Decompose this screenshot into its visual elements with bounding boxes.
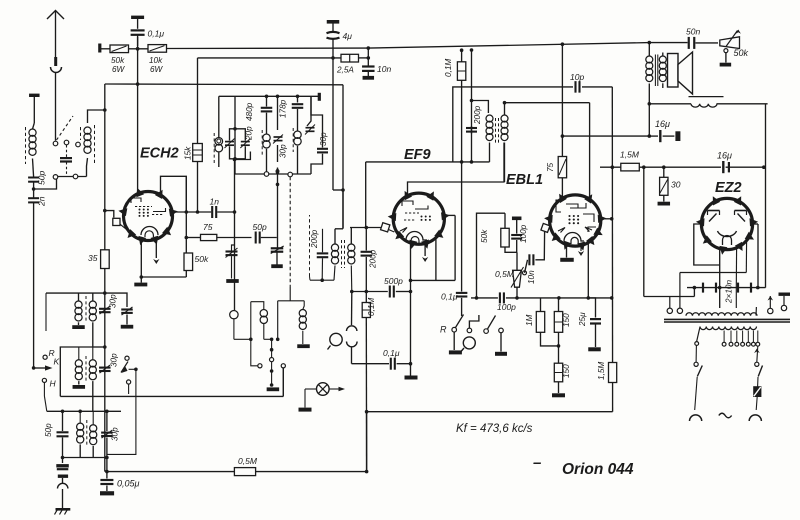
svg-text:1n: 1n [210, 197, 220, 207]
wire switch common y=176.5 [55, 175, 57, 180]
EF9 cathode bottom wires [410, 244, 412, 280]
resistor 1,5M (top) [600, 166, 621, 168]
transformer core [664, 318, 790, 320]
svg-text:200p: 200p [369, 249, 378, 269]
capacitor 50p (left) [28, 177, 39, 179]
svg-text:50p: 50p [44, 423, 53, 437]
svg-text:480p: 480p [245, 102, 254, 121]
wire x=643.8 down (HT) [643, 167, 645, 296]
cap 30p right leg [311, 96, 323, 147]
wire L2 top to grid line [88, 110, 105, 123]
svg-text:35: 35 [88, 253, 98, 263]
EBL1 right spike wire [601, 218, 612, 220]
svg-text:50k: 50k [195, 254, 209, 264]
electrolytic 4u to chassis [327, 20, 340, 24]
wire x=290 to mixer coil c [289, 177, 291, 287]
svg-text:150: 150 [562, 364, 571, 378]
tank2 coils [78, 347, 80, 360]
svg-text:15k: 15k [184, 146, 193, 160]
electrolytic 16u (first) [648, 134, 652, 138]
tank3 coils [79, 411, 81, 423]
AC symbol [719, 413, 732, 418]
svg-text:2×10n: 2×10n [725, 280, 734, 304]
resistor 35 on grid line [101, 250, 110, 269]
wire x=137.5 down to ECH2 [137, 37, 139, 193]
svg-text:Kf = 473,6 kc/s: Kf = 473,6 kc/s [456, 423, 533, 435]
wire IF1 secondary top / EF9 grid line [350, 227, 382, 229]
tube EBL1 [550, 195, 601, 246]
secondary winding [700, 327, 756, 330]
electrolytic 25u [588, 298, 595, 318]
svg-text:50p: 50p [253, 222, 267, 232]
antenna coil L1 [29, 129, 36, 136]
filter choke [649, 103, 691, 105]
svg-text:75: 75 [546, 162, 555, 172]
resistor 150 (upper) [558, 298, 560, 312]
capacitor 100p (AF coupling) [471, 297, 498, 299]
trimmer 30p tank3 [101, 432, 113, 434]
wire ECH2 top right loop [161, 176, 187, 212]
mixer coil c [278, 300, 305, 302]
switch contact right [281, 364, 285, 368]
EF9 anode top loop [408, 143, 505, 196]
wire dashed switch link [57, 116, 74, 140]
line y=411 left [47, 410, 121, 412]
resistor 30 to ground [663, 167, 665, 177]
band switch wiper line x=277.5 [276, 95, 280, 99]
wire down left column [33, 203, 35, 368]
wire 4u down to fuse rail [332, 39, 334, 58]
potentiometer 50k (tone) [720, 37, 740, 49]
capacitor 50p tank3 [62, 411, 64, 431]
trimmer2 tank1 [105, 293, 127, 307]
resistor 0,1M (AVC) [365, 292, 367, 303]
svg-text:150: 150 [562, 313, 571, 327]
capacitor 100p with top terminal [516, 217, 518, 221]
EBL1 grid square [541, 223, 550, 232]
wire x=612 vertical [611, 87, 613, 412]
capacitor 200p (IF1 left) [322, 229, 324, 253]
resistor 10k 6W [148, 45, 167, 53]
resistor 0,1M screen [460, 48, 464, 52]
pickup jack circle 2 [463, 337, 475, 349]
resistor 75 (EBL1) [558, 157, 566, 178]
terminal T-bar top-left [29, 94, 40, 97]
svg-text:200p: 200p [473, 105, 482, 125]
svg-text:1,5M: 1,5M [620, 150, 640, 160]
EBL1 bottom to 25u line [587, 240, 589, 298]
resistor 75 [186, 237, 200, 239]
potentiometer 0,5M (volume) [513, 270, 522, 287]
svg-text:EBL1: EBL1 [506, 172, 543, 188]
earth ground symbol [56, 508, 71, 511]
svg-text:30p: 30p [109, 294, 118, 308]
capacitor 10n (to EBL1 grid) [525, 260, 528, 273]
svg-text:25μ: 25μ [578, 312, 587, 327]
trimmer 30p tank1 [99, 308, 111, 310]
wire osc grid x=234.5 [234, 160, 236, 311]
mixer coil b [251, 302, 264, 310]
resistor 15k on x=197.5 [197, 58, 199, 144]
svg-text:10k: 10k [149, 56, 163, 65]
svg-text:–: – [533, 455, 541, 472]
svg-text:ECH2: ECH2 [140, 146, 179, 162]
tube EF9 [393, 193, 444, 244]
svg-text:200p: 200p [310, 229, 319, 249]
wire 75 feed [561, 44, 563, 156]
node [367, 56, 371, 60]
svg-text:10n: 10n [377, 64, 391, 74]
mains switch left [695, 342, 699, 346]
capacitors 2x10n [687, 287, 766, 289]
svg-text:100p: 100p [497, 302, 516, 312]
svg-text:10n: 10n [527, 270, 536, 284]
wire [129, 48, 149, 50]
svg-text:50k: 50k [111, 56, 125, 65]
chassis rail y=411.7 [366, 411, 613, 413]
capacitor 0,1u (EF9 cathode) [352, 363, 390, 365]
EBL1 cathode ground [566, 244, 568, 258]
secondary taps [723, 331, 725, 343]
capacitor 178p + coil [296, 95, 300, 99]
wire top rail left [101, 48, 110, 50]
variable cap (trimmer) B [235, 129, 245, 141]
svg-text:1,5M: 1,5M [597, 362, 606, 380]
svg-text:6W: 6W [150, 65, 164, 74]
grid line y=161.9 [366, 161, 490, 163]
wires caps row to rectifier line [693, 288, 695, 297]
wire x=471.5 [470, 48, 474, 52]
switch contacts tank2 [125, 356, 129, 360]
svg-text:50k: 50k [734, 48, 749, 58]
EZ2 internal diode plates [708, 210, 720, 212]
terminal bar mains dropper input [98, 44, 101, 53]
electrolytic 16u (second) [722, 161, 724, 173]
rail 2 y=57.8 [198, 57, 342, 59]
resistor 0,5M line [107, 471, 234, 473]
variable cap (tuning) A [230, 129, 236, 141]
capacitor 480p + coil [265, 95, 269, 99]
switch contacts (band switch top) [53, 141, 58, 146]
IF2 feed [472, 101, 489, 114]
svg-text:EF9: EF9 [404, 147, 431, 163]
svg-text:16μ: 16μ [655, 119, 670, 129]
svg-text:6W: 6W [112, 65, 126, 74]
resistor 150 (lower) [554, 363, 562, 382]
resistor 50k (EBL1) [504, 213, 506, 228]
ground EF9 cathode [410, 364, 412, 376]
ground ECH2 [140, 277, 142, 283]
svg-text:0,1M: 0,1M [444, 59, 453, 77]
svg-text:0,1M: 0,1M [367, 298, 376, 316]
trimmer cap (switch) [60, 157, 72, 159]
svg-text:4μ: 4μ [343, 31, 353, 41]
osc padder trimmer to ground [232, 245, 235, 251]
svg-text:1M: 1M [525, 314, 534, 326]
HV hook pins left [669, 297, 671, 309]
fuse 2,5A [341, 54, 359, 62]
mains plug pin right [749, 415, 761, 421]
svg-text:30p: 30p [111, 427, 120, 441]
wire corner down x=343 [342, 85, 344, 228]
wire to tank2 [60, 347, 105, 396]
ECH2 internal electrodes [131, 198, 141, 203]
wire fuse node up to rail [367, 48, 369, 58]
svg-text:0,5M: 0,5M [495, 269, 515, 279]
svg-text:75: 75 [203, 222, 213, 232]
svg-text:2,5A: 2,5A [336, 66, 354, 75]
node output feed [648, 41, 652, 45]
tank1 coils [78, 293, 80, 301]
IF transformer 1 secondary [350, 228, 352, 245]
svg-text:0,1μ: 0,1μ [441, 292, 458, 302]
svg-text:50k: 50k [480, 229, 489, 243]
node [136, 47, 140, 51]
EZ2 left spike wiring [694, 224, 720, 265]
rail y=84 (screen supply) [105, 83, 343, 86]
svg-text:178p: 178p [279, 99, 288, 118]
svg-text:K: K [54, 357, 60, 367]
svg-text:30: 30 [671, 180, 681, 190]
resistor 50k (ECH2 cathode) [184, 253, 193, 271]
node x=105 dots [103, 345, 107, 349]
svg-text:50p: 50p [37, 171, 47, 185]
wire y=213 feed [477, 213, 506, 298]
variable cap D [307, 96, 311, 126]
dial lamp [317, 383, 330, 396]
EZ2 bottom wiring [719, 265, 721, 288]
mains fuse right branch [757, 346, 758, 362]
power transformer HV winding [686, 313, 757, 316]
capacitor 50p [255, 232, 257, 244]
line y=87 (10p feedback) [453, 87, 573, 162]
B+ line y=102.7 [505, 102, 590, 104]
wire IF1 left bottom [310, 279, 334, 281]
EBL1 internal electrodes [556, 200, 563, 212]
tank1 top line [46, 292, 105, 294]
svg-text:EZ2: EZ2 [715, 180, 742, 196]
antenna coil L2 [84, 127, 91, 134]
IF transformer 2 coils [486, 115, 493, 122]
svg-text:16μ: 16μ [717, 151, 732, 161]
svg-text:H: H [50, 379, 57, 389]
capacitor 2n [33, 189, 35, 198]
wire antenna to switch [55, 73, 57, 141]
mains plug pin left [690, 415, 702, 421]
svg-text:20p: 20p [245, 126, 254, 141]
HV right arrow pin and chassis bar [767, 296, 773, 301]
svg-text:0,5M: 0,5M [238, 456, 258, 466]
mixer coil a [230, 311, 238, 319]
node junction [32, 187, 36, 191]
svg-text:2n: 2n [37, 196, 47, 207]
trimmer cap to ground [277, 238, 279, 248]
svg-text:30p: 30p [110, 353, 119, 367]
tube EZ2 [701, 198, 752, 249]
antenna [55, 11, 57, 59]
wire IF1 secondary bottom down [351, 292, 353, 326]
svg-text:0,1μ: 0,1μ [148, 29, 165, 39]
ECH2 cathode wires [140, 240, 142, 277]
wire B+ x=333 down [332, 58, 334, 190]
capacitor 10n to chassis [367, 58, 369, 66]
mixer node x=271.6 [271, 339, 273, 357]
antenna coil L2 dashed box [94, 125, 96, 165]
svg-text:0,1μ: 0,1μ [383, 348, 400, 358]
EF9 internal electrodes [402, 201, 413, 206]
tank bottom line y=174 [235, 173, 311, 175]
capacitor 50n (tone) [649, 42, 687, 44]
svg-text:500p: 500p [384, 276, 403, 286]
resistor 50k 6W [110, 45, 129, 53]
speaker [668, 54, 679, 88]
capacitor 10p [574, 81, 576, 93]
pickup jack circle [330, 333, 342, 345]
node [648, 102, 652, 106]
antenna coil L1 dashed box [25, 127, 27, 164]
resistor 1,5M (right) [609, 363, 617, 383]
connector break (pickup) [347, 326, 357, 331]
trimmer 30p tank2 [99, 367, 111, 369]
tank left vertical x=235 [234, 96, 236, 174]
tank top line y=96 [219, 95, 319, 97]
resistor 1M [540, 298, 542, 312]
wire grid line x=104.8 [104, 84, 106, 250]
long wire y=396.4 [60, 395, 283, 397]
ECH2 grid cap square + stem [105, 211, 114, 218]
svg-text:0,05μ: 0,05μ [117, 479, 140, 489]
capacitor 0,1u to chassis top [131, 16, 144, 19]
wire x=186 vertical [185, 176, 187, 277]
osc coil (tuned) with core [218, 96, 220, 137]
capacitor 500p [352, 291, 388, 293]
IF1 core dashes [341, 240, 343, 268]
svg-text:30p: 30p [279, 144, 288, 158]
capacitor 1n coupling [172, 211, 211, 213]
EF9 grid cap square [381, 223, 390, 232]
line y=297.9 nodes [557, 296, 561, 300]
svg-text:10p: 10p [570, 72, 584, 82]
svg-text:Orion 044: Orion 044 [562, 461, 634, 478]
bottom line y=457.5 [63, 457, 107, 459]
svg-text:30p: 30p [319, 132, 328, 146]
capacitor 200p IF2 [471, 126, 473, 134]
svg-text:100p: 100p [519, 224, 528, 243]
series caps + plug to earth [62, 458, 64, 464]
output transformer [648, 43, 650, 56]
svg-text:50n: 50n [686, 27, 700, 37]
capacitor 0,1u (detector out) [461, 162, 463, 292]
wire top rail to right [167, 47, 369, 49]
tube ECH2 [124, 192, 173, 241]
capacitor 200p (IF1 right) [365, 226, 369, 230]
svg-text:R: R [440, 325, 447, 335]
wire to switch [34, 178, 57, 190]
IF transformer 1 primary [342, 190, 344, 229]
capacitor 0,05u [105, 470, 109, 474]
